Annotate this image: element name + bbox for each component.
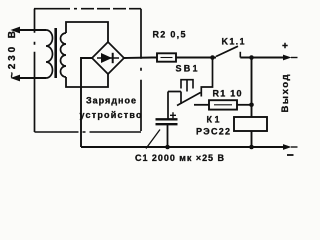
wire bridge plus to R2 xyxy=(124,57,157,60)
wire K1.1 to plus output xyxy=(240,57,284,59)
svg-text:R1 10: R1 10 xyxy=(213,89,242,99)
contact K1.1 fixed tick xyxy=(239,52,241,58)
bridge diode cathode bar xyxy=(112,53,114,63)
resistor R1 inner line xyxy=(214,104,232,106)
svg-text:К1: К1 xyxy=(207,115,220,125)
minus rail wire xyxy=(81,146,284,148)
node C1 rail junction dot xyxy=(165,145,170,150)
resistor R1 xyxy=(209,100,237,109)
wire to R1 xyxy=(194,104,209,106)
minus output stub xyxy=(291,146,298,148)
button SB1 movable arm xyxy=(177,93,201,106)
node relay rail junction dot xyxy=(249,145,254,150)
enclosure dash-dot boundary left edge xyxy=(34,9,36,132)
svg-text:устройство: устройство xyxy=(80,110,143,120)
wire secondary top to bridge top xyxy=(66,22,108,42)
svg-text:С1 2000 мк ×25 В: С1 2000 мк ×25 В xyxy=(135,153,225,163)
wire node A down to SB1 right xyxy=(201,58,212,97)
wire R2 to node A xyxy=(176,57,216,59)
enclosure dash-dot boundary right edge xyxy=(140,9,142,131)
wire R1 to rail xyxy=(237,104,252,106)
wire secondary bottom to bridge bottom xyxy=(66,74,108,87)
bridge rectifier VD1 diamond xyxy=(92,42,124,74)
label leader line C1 xyxy=(146,130,160,149)
mains input arrow bottom xyxy=(11,75,21,82)
mains input lead top wire xyxy=(13,29,46,31)
svg-text:~230 В: ~230 В xyxy=(7,31,18,78)
plus sign xyxy=(282,43,287,48)
mains input arrow top xyxy=(11,27,21,34)
bridge diode line xyxy=(97,57,119,59)
resistor R2 xyxy=(157,53,176,61)
wire relay to minus rail xyxy=(251,131,253,147)
svg-text:Зарядное: Зарядное xyxy=(86,96,136,106)
mains input lead bottom wire xyxy=(13,77,46,79)
capacitor C1 top plate xyxy=(156,118,178,120)
wire rail down to relay xyxy=(251,58,253,118)
plus output arrow xyxy=(283,55,292,61)
button SB1 actuator xyxy=(181,80,193,92)
transformer T1 primary winding xyxy=(46,30,53,78)
enclosure dash-dot boundary bottom edge xyxy=(35,131,142,133)
svg-text:K1.1: K1.1 xyxy=(222,37,245,47)
node R1 rail junction dot xyxy=(249,103,254,108)
svg-text:РЭС22: РЭС22 xyxy=(196,127,230,137)
capacitor C1 bottom lead xyxy=(167,124,169,147)
node plus rail junction dot xyxy=(249,55,254,60)
resistor R2 inner line xyxy=(161,57,173,59)
wire bridge minus down xyxy=(81,58,92,147)
plus output stub xyxy=(291,57,298,59)
svg-text:R2 0,5: R2 0,5 xyxy=(153,30,186,40)
transformer T1 secondary winding xyxy=(61,33,67,77)
minus output arrow xyxy=(283,144,292,150)
relay K1 coil box xyxy=(234,117,267,131)
bridge diode triangle xyxy=(101,53,112,63)
svg-text:SB1: SB1 xyxy=(176,64,198,74)
minus sign xyxy=(287,154,294,156)
transformer core xyxy=(54,28,57,78)
capacitor C1 plus sign xyxy=(170,112,176,118)
node A junction dot xyxy=(210,55,215,60)
enclosure dash-dot boundary top edge xyxy=(34,8,141,10)
contact K1.1 arm xyxy=(216,46,238,56)
svg-text:Выход: Выход xyxy=(280,75,291,113)
button SB1 left contact xyxy=(168,92,181,120)
capacitor C1 bottom plate xyxy=(156,123,178,125)
